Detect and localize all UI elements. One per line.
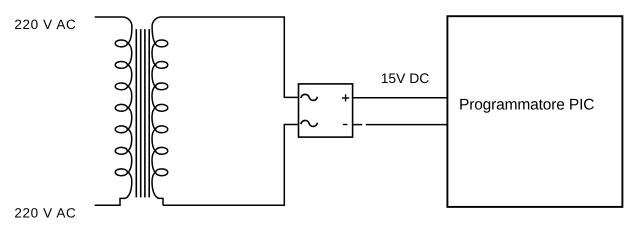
wire secondary top to bridge AC input <box>161 17 298 97</box>
wire bridge minus output to programmer (segment 1) <box>353 124 362 126</box>
wire bridge plus output to programmer <box>353 97 447 99</box>
bridge rectifier AC symbol (top) <box>301 94 318 100</box>
svg-text:220 V AC: 220 V AC <box>14 206 76 221</box>
wire secondary bottom to bridge AC input <box>163 125 298 206</box>
svg-text:15V DC: 15V DC <box>381 70 430 86</box>
wire bridge minus output to programmer (segment 2) <box>366 124 448 126</box>
transformer T1 core <box>136 29 149 197</box>
bridge rectifier plus terminal mark <box>342 94 349 101</box>
svg-text:Programmatore PIC: Programmatore PIC <box>459 97 594 114</box>
bridge rectifier B1 body <box>299 84 353 137</box>
transformer T1 secondary winding <box>152 17 168 205</box>
bridge rectifier minus terminal mark <box>343 124 348 126</box>
svg-text:220 V AC: 220 V AC <box>14 17 76 32</box>
transformer T1 primary winding with input wires <box>95 17 132 205</box>
bridge rectifier AC symbol (bottom) <box>301 120 318 126</box>
programmer block U1 body <box>447 16 622 207</box>
